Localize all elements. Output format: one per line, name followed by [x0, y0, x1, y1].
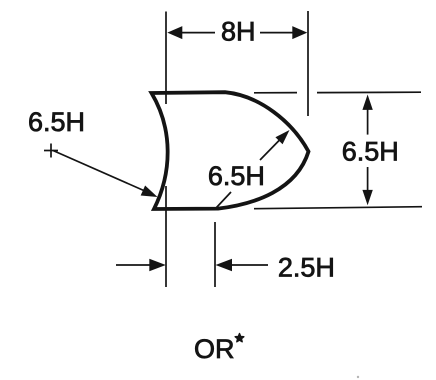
svg-text:6.5H: 6.5H — [28, 107, 85, 137]
svg-text:6.5H: 6.5H — [208, 161, 265, 191]
svg-text:6.5H: 6.5H — [342, 137, 399, 167]
svg-text:2.5H: 2.5H — [278, 253, 335, 283]
svg-text:8H: 8H — [221, 17, 256, 47]
svg-text:OR: OR — [194, 334, 235, 364]
